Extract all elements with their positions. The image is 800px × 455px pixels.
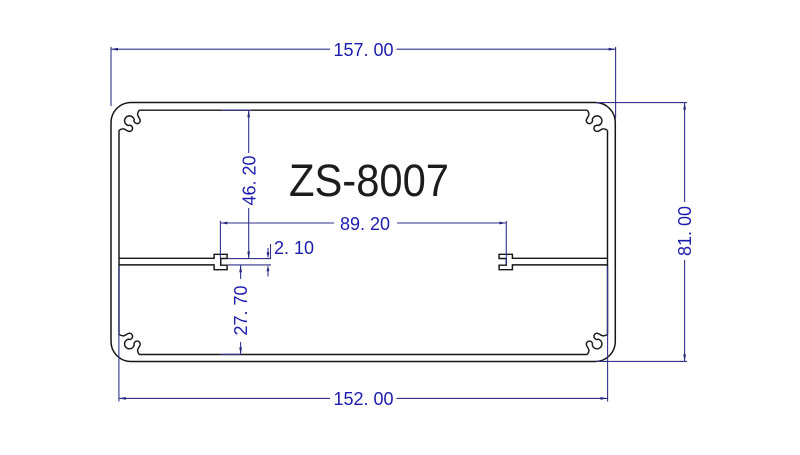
svg-text:157. 00: 157. 00 <box>333 40 393 60</box>
dimension 46.20 extension along inner top <box>221 109 251 111</box>
arrow 27.70 top <box>239 265 242 272</box>
dimension 89.20 extension line right <box>505 221 507 265</box>
dimension 46.20 line <box>248 110 250 258</box>
arrow 46.20 top <box>247 110 250 117</box>
dimension 81.00 extension line top <box>596 102 687 104</box>
arrow 157.00 right <box>609 48 616 51</box>
arrow 152.00 right <box>601 397 608 400</box>
inner wall right edge <box>607 130 609 334</box>
dimension 27.70 line <box>240 265 242 354</box>
arrow 81.00 bottom <box>683 354 686 361</box>
svg-text:ZS-8007: ZS-8007 <box>289 155 449 206</box>
dimension 152.00 extension line left <box>118 266 120 402</box>
arrow 27.70 bottom <box>239 347 242 354</box>
dimension 152.00 line <box>119 397 608 399</box>
dimension 27.70 extension along inner bottom <box>220 353 241 355</box>
screw boss bottom-right <box>586 333 607 354</box>
arrow 46.20 bottom <box>247 252 250 259</box>
arrow 89.20 left <box>220 222 227 225</box>
dimension 81.00 line <box>684 103 686 362</box>
svg-text:2. 10: 2. 10 <box>274 238 314 258</box>
dimension 89.20 extension line left <box>219 221 221 259</box>
divider wall left segment with end tab <box>119 254 227 269</box>
arrow 152.00 left <box>119 397 126 400</box>
dimension 81.00 extension line bottom <box>596 360 687 362</box>
screw boss bottom-left <box>119 333 140 354</box>
arrow 89.20 right <box>499 222 506 225</box>
svg-text:27. 70: 27. 70 <box>231 285 251 335</box>
dimension 157.00 line <box>111 48 616 50</box>
profile outer wall <box>111 103 615 362</box>
svg-text:152. 00: 152. 00 <box>333 389 393 409</box>
dimension 157.00 extension line left <box>110 47 112 106</box>
dimension 157.00 extension line right <box>615 47 617 119</box>
dimension 89.20 line <box>220 222 506 224</box>
arrow 81.00 top <box>683 103 686 110</box>
screw boss top-right <box>586 110 607 131</box>
svg-text:89. 20: 89. 20 <box>340 214 390 234</box>
svg-text:46. 20: 46. 20 <box>239 155 259 205</box>
screw boss top-left <box>119 110 140 131</box>
dimension 152.00 extension line right <box>607 266 609 402</box>
divider wall right segment with end tab <box>499 254 607 269</box>
arrow 157.00 left <box>111 48 118 51</box>
dimension 2.10 extension line bottom <box>228 264 271 266</box>
inner wall top edge <box>139 109 587 111</box>
dimension 2.10 leader elbow <box>270 244 272 259</box>
inner wall bottom edge <box>139 354 587 356</box>
dimension 2.10 extension line top <box>228 258 271 260</box>
arrow 2.10 top outside <box>267 248 269 254</box>
svg-text:81. 00: 81. 00 <box>675 206 695 256</box>
arrow 2.10 bottom outside <box>267 270 269 277</box>
inner wall left edge <box>118 130 120 334</box>
